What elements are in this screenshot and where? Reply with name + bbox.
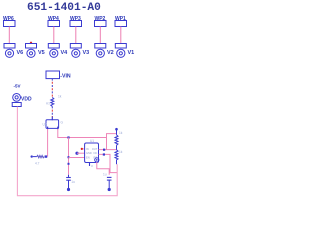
wire U1 out row1 xyxy=(99,149,117,151)
WP1 test point box xyxy=(115,21,127,27)
svg-text:1k: 1k xyxy=(119,131,123,135)
svg-text:V6: V6 xyxy=(17,50,24,56)
U1 pad circle xyxy=(95,158,99,162)
svg-text:V5: V5 xyxy=(38,50,45,56)
svg-text:V4: V4 xyxy=(61,50,69,56)
svg-text:WP3: WP3 xyxy=(70,16,81,22)
wire WP1 to V1 xyxy=(120,27,122,44)
capacitor C2 xyxy=(107,177,112,188)
U1 gnd stub xyxy=(89,163,91,166)
connector V1 xyxy=(115,44,126,58)
svg-text:1k: 1k xyxy=(58,95,62,99)
U1 pin names left xyxy=(86,147,92,159)
wire port to U1 pin2 xyxy=(77,152,85,154)
svg-text:WP6: WP6 xyxy=(3,16,14,22)
wire U2 left pin down xyxy=(47,129,49,157)
junction node xyxy=(103,149,105,151)
svg-text:EN: EN xyxy=(86,155,90,159)
connector V4 xyxy=(48,44,59,58)
svg-text:WP4: WP4 xyxy=(48,16,59,22)
svg-text:651-1401-A0: 651-1401-A0 xyxy=(27,2,101,14)
dashed net to U2 xyxy=(51,106,53,117)
output terminal dot xyxy=(115,128,118,131)
wire WP3 to V3 xyxy=(75,27,77,44)
junction node xyxy=(67,136,69,138)
svg-text:V1: V1 xyxy=(128,50,135,56)
resistor R4 (horizontal) xyxy=(31,155,48,157)
junction node xyxy=(103,153,105,155)
WP4 test point box xyxy=(48,21,60,27)
red no-connect dot U1 pin1 xyxy=(83,148,85,150)
connector V5 xyxy=(26,44,37,58)
wire WP6 to V6 xyxy=(8,27,10,44)
wire WP2 to V2 xyxy=(99,27,101,44)
svg-text:WP2: WP2 xyxy=(95,16,106,22)
svg-text:1u: 1u xyxy=(71,180,75,184)
power symbol VDD xyxy=(12,94,21,107)
WP2 test point box xyxy=(95,21,107,27)
net port node xyxy=(75,152,78,155)
red no-connect dot V5 xyxy=(30,42,32,44)
svg-text:NC: NC xyxy=(94,151,98,155)
terminal -VIN xyxy=(46,71,60,79)
VDD rail wire xyxy=(17,107,117,196)
junction node xyxy=(68,163,70,165)
ground blob C2 xyxy=(108,188,111,191)
resistor R1 (vertical) xyxy=(115,131,118,150)
connector V6 xyxy=(4,44,15,58)
svg-text:VDD: VDD xyxy=(21,97,32,103)
svg-text:WP1: WP1 xyxy=(115,16,126,22)
resistor R2 (vertical) xyxy=(115,150,118,164)
WP6 test point box xyxy=(4,21,16,27)
svg-text:V2: V2 xyxy=(107,50,114,56)
wire U2 right pin xyxy=(58,129,107,138)
resistor R3 (vertical) xyxy=(51,97,54,106)
svg-text:U1: U1 xyxy=(90,139,94,143)
svg-text:R3: R3 xyxy=(46,102,50,106)
wire WP4 to V4 xyxy=(53,27,55,44)
wire pad to C2 xyxy=(97,162,109,175)
wire node down to C1 xyxy=(68,138,70,175)
svg-text:U2: U2 xyxy=(43,123,47,127)
svg-text:4.7: 4.7 xyxy=(35,162,40,166)
junction node xyxy=(68,156,70,158)
svg-text:-5V: -5V xyxy=(14,84,21,89)
wire node to U1 pin3 xyxy=(69,157,85,159)
connector V3 xyxy=(70,44,81,58)
svg-text:-VIN: -VIN xyxy=(60,73,71,79)
dashed net -VIN down xyxy=(51,79,53,98)
WP3 test point box xyxy=(70,21,82,27)
svg-text:1u: 1u xyxy=(103,173,107,177)
capacitor C1 xyxy=(66,175,71,188)
regulator U1 xyxy=(85,143,99,163)
U1 pin names right xyxy=(92,147,98,159)
svg-text:1k: 1k xyxy=(119,150,123,154)
ground blob C1 xyxy=(67,188,70,191)
svg-text:OUT: OUT xyxy=(92,147,98,151)
svg-text:V3: V3 xyxy=(83,50,90,56)
svg-text:GND: GND xyxy=(86,151,92,155)
wire row2 to rail xyxy=(99,154,118,172)
wire feedback elbow xyxy=(107,134,117,150)
connector V2 xyxy=(95,44,106,58)
shunt box U2 xyxy=(46,117,59,130)
svg-text:IN: IN xyxy=(86,147,89,151)
